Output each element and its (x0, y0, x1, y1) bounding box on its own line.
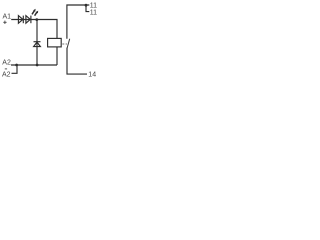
svg-text:11: 11 (90, 10, 97, 17)
svg-text:11: 11 (90, 3, 97, 10)
svg-text:14: 14 (88, 72, 96, 79)
svg-text:A1: A1 (3, 14, 12, 21)
svg-text:A2: A2 (2, 72, 11, 79)
svg-text:A2: A2 (2, 60, 11, 67)
